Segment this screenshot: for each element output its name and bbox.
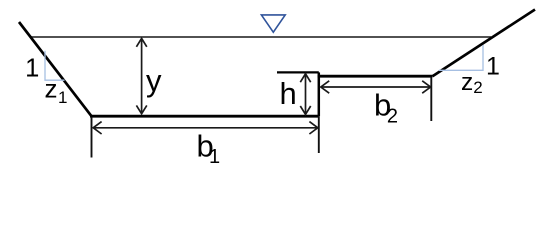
svg-text:1: 1 (486, 53, 500, 81)
svg-text:y: y (146, 63, 162, 98)
svg-text:1: 1 (25, 55, 39, 83)
svg-text:b2: b2 (374, 88, 398, 128)
svg-text:b1: b1 (197, 129, 221, 168)
svg-text:h: h (280, 76, 297, 111)
svg-text:z2: z2 (461, 69, 483, 97)
